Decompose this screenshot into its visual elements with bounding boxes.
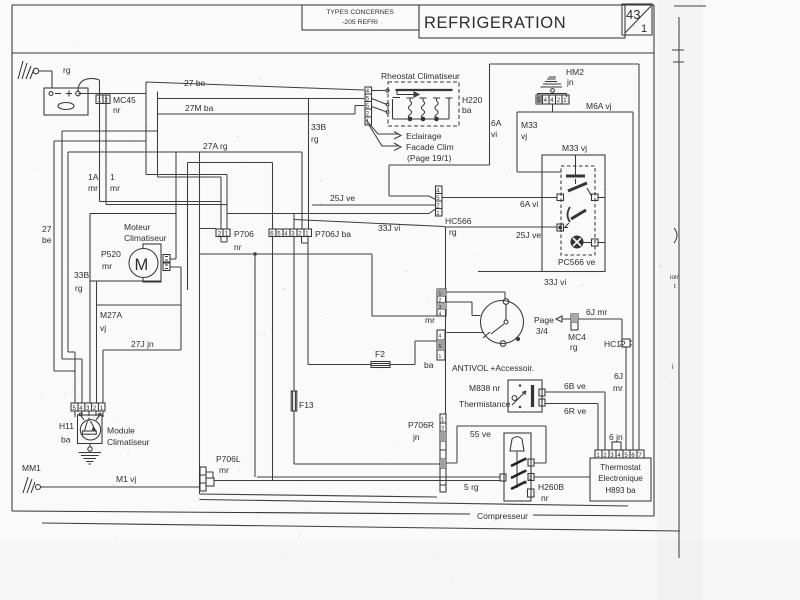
svg-text:mr: mr [102,261,112,271]
svg-text:25J ve: 25J ve [516,230,541,240]
rheostat connector link wires [372,91,389,114]
svg-text:HC566: HC566 [445,216,472,226]
wire 6A vi to relay [442,197,557,199]
svg-text:jn: jn [412,432,420,442]
wire 33J vi [478,271,605,273]
svg-text:H893 ba: H893 ba [605,486,636,495]
svg-text:4: 4 [550,98,554,104]
svg-text:1: 1 [641,23,647,35]
wire 6A vi routing from rheostat to HC566 [389,64,490,200]
wire 27 be (top) [78,82,364,229]
svg-text:3: 3 [439,305,442,311]
svg-text:Climatiseur: Climatiseur [107,437,150,447]
connector on thermostat (1-7) [595,450,644,459]
svg-text:mr: mr [88,183,98,193]
svg-text:P706L: P706L [216,454,241,464]
svg-text:6R ve: 6R ve [564,406,586,416]
svg-text:nr: nr [113,105,121,115]
relay PC566 dashed body [561,166,595,255]
fuse F2 [371,362,390,368]
svg-text:4: 4 [439,312,442,318]
svg-text:33J vi: 33J vi [378,223,400,233]
battery [44,88,88,115]
wire 33J vi (middle segment) [294,220,445,227]
ground under H11 [79,444,102,465]
title block REFRIGERATION [419,5,625,38]
connector on ignition (ba) [424,330,445,370]
connector P706L [200,454,241,491]
svg-text:REFRIGERATION: REFRIGERATION [424,14,566,32]
svg-text:H220: H220 [462,95,483,105]
connector on module H11 (5,4,3,2,1) [71,403,105,412]
buzzer HM2 [538,77,567,97]
wire 27A rg [68,152,302,259]
connector on rheostat (4,5,5,2,1) [365,87,372,126]
svg-text:5: 5 [439,344,442,350]
svg-text:Facade Clim: Facade Clim [406,142,454,152]
page edge scan artifact [42,6,706,558]
wire 6J mr [578,319,622,339]
connector MC45 [96,95,136,115]
connector P706R [408,414,446,492]
svg-text:Climatiseur: Climatiseur [124,233,167,243]
ignition switch column trunk [445,227,447,414]
svg-text:6J mr: 6J mr [586,307,607,317]
relay M33/PC566 outer box [542,155,605,272]
svg-text:HC12: HC12 [604,339,626,349]
relay box M27A [97,267,182,350]
svg-text:MC45: MC45 [113,95,136,105]
svg-text:2: 2 [529,476,533,482]
wires ignition to connector [446,292,505,333]
svg-text:5 rg: 5 rg [464,482,479,492]
relay contacts and coil [557,155,605,248]
sheet border [12,5,654,516]
motor climatiseur P520 [90,214,176,404]
svg-text:rg: rg [449,227,457,237]
wire F2 to antivol connector [390,341,437,365]
svg-text:33B: 33B [74,270,89,280]
svg-text:M838 nr: M838 nr [469,383,500,393]
svg-text:ba: ba [424,360,434,370]
svg-text:mr: mr [613,383,623,393]
svg-text:M1 vj: M1 vj [116,474,136,484]
wire 1A mr (battery trunk left) [100,80,222,202]
svg-text:mr: mr [425,315,435,325]
svg-text:27M ba: 27M ba [185,103,214,113]
svg-text:P706: P706 [234,229,254,239]
svg-text:M: M [135,256,149,274]
svg-text:1: 1 [110,172,115,182]
rheostat slider and resistor bank [386,89,453,121]
wire P706L run [214,480,500,482]
svg-text:6J: 6J [614,371,623,381]
sheet number 43/1 [622,4,652,35]
wire 25J ve (left segment) [312,204,436,206]
svg-text:27 be: 27 be [184,78,206,88]
svg-text:2: 2 [439,298,442,304]
svg-text:mr: mr [110,183,120,193]
wire P706J pin6 drop to 5 rg run [272,237,274,481]
ground (battery negative) [18,61,52,88]
svg-text:Page: Page [534,315,554,325]
svg-text:6A: 6A [491,118,502,128]
svg-text:P520: P520 [101,249,121,259]
svg-text:be: be [42,235,52,245]
svg-text:rg: rg [63,65,71,75]
arrows to Eclairage / Facade Clim [366,120,401,151]
wire drop to 5 rg [254,254,256,477]
wire P706 lower run [200,254,438,316]
wire 33B rg left drop [68,152,75,352]
wire to P706J pin6 (y=163) [188,163,273,291]
svg-text:2: 2 [557,98,561,104]
adjacent page gray band [657,0,703,600]
wire H260B to thermostat [534,476,590,478]
svg-text:6 jn: 6 jn [609,432,623,442]
svg-text:M33: M33 [521,120,538,130]
H11 pin stubs [75,411,103,417]
P706J pin2-pin1 jumper [302,237,309,244]
svg-text:H11: H11 [59,421,74,431]
connector MC4 [568,314,586,352]
svg-text:mr: mr [219,465,229,475]
wire 33B rg drop to P706J pin1 [308,99,310,230]
svg-text:1: 1 [563,98,567,104]
wire M6A vj [517,105,633,451]
svg-text:MC4: MC4 [568,332,586,342]
svg-text:rg: rg [311,134,319,144]
svg-text:F13: F13 [299,400,314,410]
svg-text:33J vi: 33J vi [544,277,566,287]
svg-text:1: 1 [439,354,442,360]
svg-text:jn: jn [566,77,574,87]
wire pin2 drop [96,281,98,403]
rheostat climatiseur H220 (dashed enclosure) [381,71,483,126]
svg-text:3/4: 3/4 [536,326,548,336]
motor pin wires [170,259,181,267]
wire 27M left drop [62,92,221,404]
fuse F13 [291,391,297,411]
svg-text:ba: ba [462,105,472,115]
svg-text:6A vi: 6A vi [520,199,539,209]
svg-text:-205 REFRI: -205 REFRI [342,19,378,26]
svg-text:Eclairage: Eclairage [406,131,442,141]
svg-text:27: 27 [42,224,52,234]
svg-text:rg: rg [570,342,578,352]
connector 6 jn above thermostat [609,432,623,450]
wire M33 vj (left branch) [517,112,561,172]
wire 1 mr (battery trunk right) [106,95,436,214]
svg-text:4: 4 [439,334,442,340]
connector HC566 [436,186,472,237]
svg-text:F2: F2 [375,349,385,359]
svg-text:nr: nr [234,242,242,252]
svg-text:M27A: M27A [100,310,123,320]
junction node on P706 feed [253,252,257,256]
wire 55 ve [446,426,546,463]
wire 6R ve [545,404,598,451]
svg-text:6B ve: 6B ve [564,381,586,391]
svg-text:M33 vj: M33 vj [562,143,587,153]
connector P706 [200,229,255,253]
wire F2 feed from pin1 jumper [308,243,371,365]
svg-text:HM2: HM2 [566,67,584,77]
svg-text:4: 4 [544,98,548,104]
ignition switch (antivol) [481,299,524,347]
wire 27M ba [158,106,365,115]
svg-text:vj: vj [100,323,106,333]
module climatiseur H11 [78,413,103,443]
connector on ignition (mr) [425,289,446,325]
svg-text:Compresseur: Compresseur [477,511,528,521]
svg-text:PC566 ve: PC566 ve [558,257,596,267]
wire 6J mr drop to thermostat pin5 [625,347,627,450]
connector HC12 [604,339,632,349]
svg-text:Thermostat: Thermostat [600,463,641,472]
scan speckle [17,18,675,582]
svg-text:P706J ba: P706J ba [315,229,351,239]
svg-text:Rheostat Climatiseur: Rheostat Climatiseur [381,71,460,81]
wire P706J pin4 trunk with fuse F13 [294,214,440,465]
svg-text:27A rg: 27A rg [203,141,228,151]
top net wire to thermostat pin7 [490,64,640,450]
svg-text:vj: vj [521,131,527,141]
wire 5 rg [257,476,500,478]
svg-text:1: 1 [439,292,442,298]
wire 27 be left drop [54,141,146,403]
wire 27J jn to pin1 [102,350,104,403]
svg-text:ANTIVOL +Accessoir.: ANTIVOL +Accessoir. [452,363,534,373]
wire 6B ve [545,392,605,450]
svg-text:(Page 19/1): (Page 19/1) [407,153,452,163]
svg-text:Electronique: Electronique [598,474,643,483]
svg-text:25J ve: 25J ve [330,193,355,203]
ground MM1 [22,463,44,493]
svg-text:rg: rg [75,283,83,293]
connector on HM2 (5,4,4,2,1) [536,95,569,104]
svg-text:M6A vj: M6A vj [586,101,612,111]
svg-text:H260B: H260B [538,482,564,492]
wire M1 vj [44,486,200,488]
pressure switch H260B [500,433,564,503]
svg-text:55 ve: 55 ve [470,429,491,439]
antivol trunk box left edge [199,152,201,494]
svg-text:nr: nr [541,493,549,503]
svg-text:33B: 33B [311,122,326,132]
svg-text:Thermistance: Thermistance [459,399,511,409]
enclosure bottom lines [200,494,629,506]
wire 33B rg / battery feed (y=98.5) [158,98,365,100]
svg-text:ba: ba [61,435,71,445]
connector P706J [269,229,351,239]
svg-text:P706R: P706R [408,420,434,430]
svg-text:TYPES CONCERNES: TYPES CONCERNES [326,9,394,16]
wire 25J ve to relay [445,226,558,228]
svg-text:Module: Module [107,426,135,436]
svg-text:1A: 1A [88,172,99,182]
svg-text:27J jn: 27J jn [131,339,154,349]
thermistance M838 [459,380,545,412]
svg-text:Moteur: Moteur [124,222,151,232]
thermostat electronique H893 [590,458,651,501]
svg-text:vi: vi [491,129,497,139]
title block TYPES CONCERNES [302,5,419,30]
svg-text:43: 43 [626,7,640,22]
svg-text:MM1: MM1 [22,463,41,473]
